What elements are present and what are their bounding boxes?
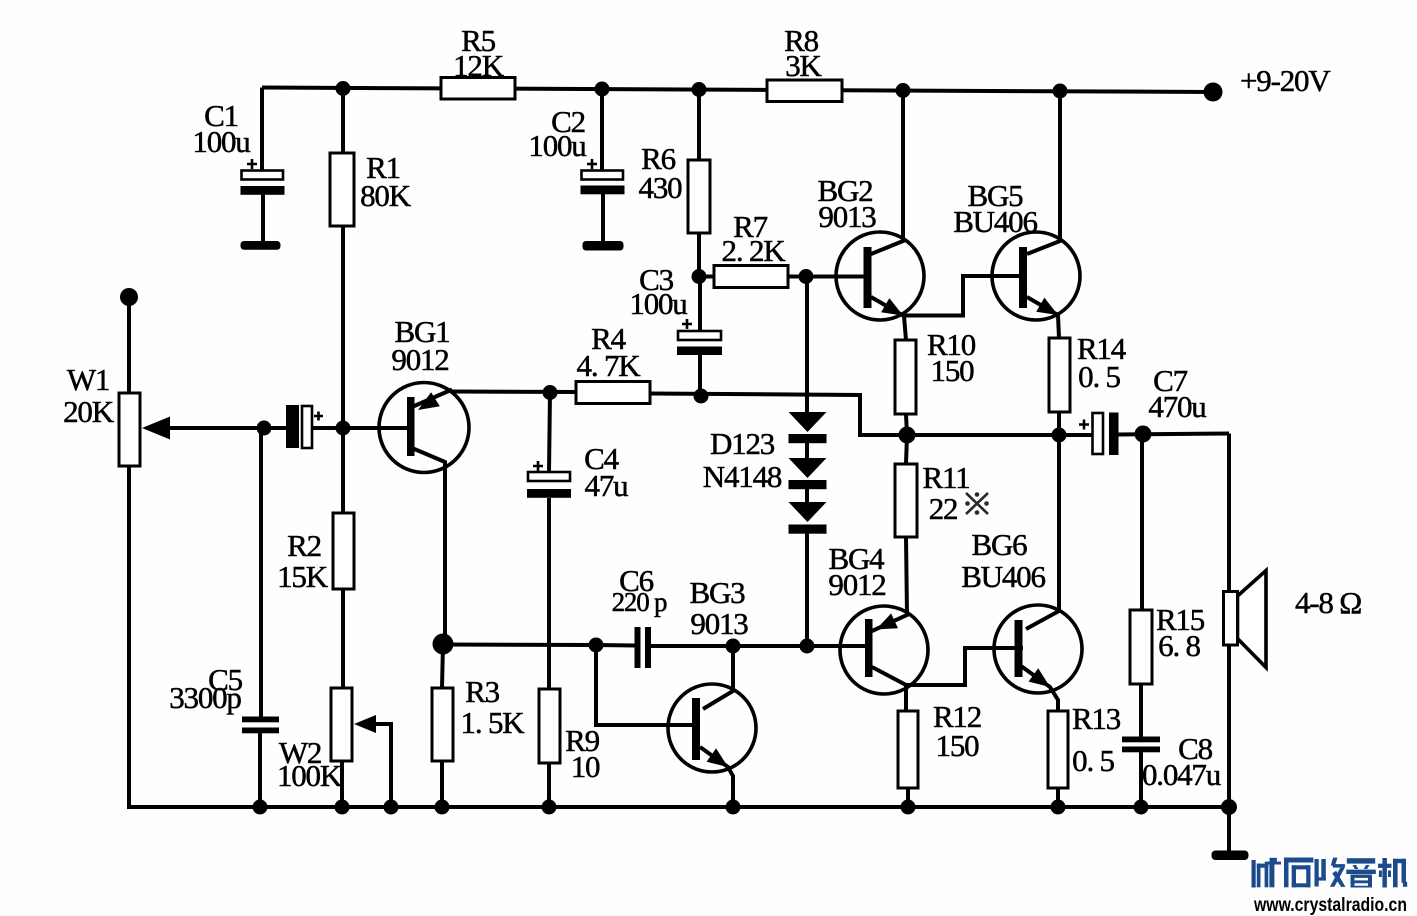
wire R4 node to C4 — [549, 393, 550, 473]
glyph ji — [1378, 858, 1407, 888]
capacitor C6 220p — [635, 627, 652, 668]
svg-text:www.crystalradio.cn: www.crystalradio.cn — [1253, 895, 1407, 916]
junction R6/C3/R7 node — [692, 269, 707, 284]
svg-text:9012: 9012 — [391, 342, 448, 377]
resistor R14 0.5 — [1049, 338, 1070, 412]
junction BG3 emitter/bottom rail — [726, 800, 741, 815]
wire BG3 base elbow — [596, 645, 696, 725]
junction W2 wiper/bottom rail — [384, 800, 399, 815]
resistor R5 12K — [441, 78, 515, 100]
node W1 input terminal — [120, 288, 138, 306]
wire R12 to bottom rail — [906, 788, 910, 807]
wire R13 to bottom rail — [1056, 788, 1060, 807]
wire R1 node to R2 — [341, 428, 345, 513]
resistor R7 2.2K — [714, 266, 788, 288]
junction R10/R11/output node — [899, 427, 916, 444]
svg-text:BU406: BU406 — [953, 204, 1037, 239]
wire C6 to BG3 collector node — [651, 644, 733, 648]
junction C2/top rail — [595, 82, 610, 97]
svg-text:9012: 9012 — [828, 567, 885, 602]
svg-text:150: 150 — [936, 728, 980, 763]
transistor BG4 9012 PNP — [840, 606, 928, 694]
wire R2 to W2 — [341, 589, 345, 688]
wire BG1 emitter diagonal — [412, 390, 452, 408]
junction W2/bottom rail — [335, 800, 350, 815]
capacitor C4 47u electrolytic — [527, 461, 571, 498]
diode D3 1N4148 — [789, 502, 827, 534]
potentiometer W2 100K body — [331, 688, 352, 761]
resistor R2 15K — [333, 513, 354, 589]
wire lower signal line to C6 — [443, 645, 635, 646]
svg-text:100u: 100u — [629, 286, 687, 321]
wire R1 to BG1 base node — [341, 226, 345, 428]
wire input node to C5 — [259, 428, 263, 717]
wire R11 to BG4 emitter — [872, 537, 907, 631]
wire BG1 emitter to R4 node — [450, 390, 576, 395]
wire BG6 collector to output node — [1026, 435, 1059, 629]
junction diode bottom/BG4 base node — [800, 639, 815, 654]
junction C5/bottom rail — [253, 800, 268, 815]
svg-text:0. 5: 0. 5 — [1078, 359, 1120, 394]
wire BG3 collector lead — [703, 646, 733, 709]
transistor BG3 9013 NPN — [668, 684, 756, 772]
wire input node to coupling cap — [264, 426, 286, 430]
wire speaker to bottom rail — [1227, 644, 1231, 807]
wire BG5 emitter to R14 — [1027, 297, 1059, 338]
wire C2 top lead — [600, 89, 604, 171]
junction BG2 collector/top rail — [896, 83, 911, 98]
speaker 4-8 ohm — [1224, 571, 1267, 668]
svg-text:0. 5: 0. 5 — [1072, 743, 1114, 778]
svg-text:N4148: N4148 — [703, 459, 782, 494]
wire R15 to C8 — [1139, 684, 1143, 737]
svg-text:3K: 3K — [785, 48, 822, 83]
svg-text:150: 150 — [931, 353, 975, 388]
wire BG2 emitter to R10 — [904, 316, 906, 340]
junction wiper/C5 node — [257, 421, 272, 436]
junction C6/BG3 base node — [589, 638, 604, 653]
wire W1 bottom to rail corner — [127, 466, 131, 809]
junction C3 bottom/R4 wire — [694, 389, 709, 404]
svg-text:9013: 9013 — [690, 606, 748, 641]
svg-text:4. 7K: 4. 7K — [577, 348, 642, 383]
wire BG5 collector from rail — [1027, 91, 1060, 254]
wire BG3 emitter to bottom rail — [700, 747, 733, 807]
capacitor C2 100u electrolytic — [581, 159, 625, 251]
junction R3/bottom rail — [435, 800, 450, 815]
svg-text:BG3: BG3 — [690, 575, 746, 610]
wire output node to R11 — [906, 435, 907, 464]
svg-text:BU406: BU406 — [961, 559, 1045, 594]
svg-text:9013: 9013 — [818, 199, 876, 234]
wire C5 to bottom rail — [258, 733, 262, 807]
diode D2 1N4148 — [789, 458, 827, 489]
wire BG3 collector node to diode node to BG4 base — [733, 644, 869, 648]
svg-text:3300p: 3300p — [169, 680, 241, 715]
transistor BG2 9013 NPN — [836, 232, 924, 320]
wire C3 node to C3 top plate — [698, 277, 702, 331]
svg-text:R3: R3 — [465, 674, 499, 709]
wire BG4 collector to BG6 base jog — [906, 648, 1023, 685]
resistor R4 4.7K — [576, 382, 650, 404]
resistor R15 6.8 — [1130, 610, 1152, 684]
wire R9 to bottom rail — [547, 763, 551, 807]
wire coupling cap to BG1 base — [312, 426, 411, 430]
wire top supply rail — [262, 88, 1212, 93]
svg-text:R11: R11 — [923, 460, 970, 495]
resistor R3 1.5K — [432, 688, 453, 761]
wire C1 top lead — [260, 88, 264, 173]
wire BG2 collector from rail — [871, 91, 903, 255]
wire speaker branch down to speaker — [1227, 434, 1231, 593]
wire W1 wiper to input node — [160, 426, 264, 430]
wire R4 right to jog down to output node — [650, 394, 907, 436]
wire BG6 emitter to R13 — [1021, 666, 1058, 711]
glyph shi — [1284, 858, 1313, 888]
transistor BG1 9012 PNP — [379, 383, 469, 473]
svg-text:12K: 12K — [453, 48, 505, 83]
svg-text:22: 22 — [929, 491, 958, 526]
watermark logo "kuang shi shou yin ji" (CJK drawn as shapes) — [1252, 858, 1408, 888]
resistor R1 80K — [330, 153, 354, 226]
potentiometer W2 wiper arrow — [354, 715, 376, 733]
resistor R13 0.5 — [1048, 711, 1068, 788]
wire R10 to output node — [906, 414, 907, 435]
junction R6/top rail — [692, 82, 707, 97]
glyph yin — [1346, 858, 1376, 887]
svg-text:10: 10 — [571, 749, 600, 784]
resistor R12 150 — [898, 711, 918, 788]
resistor R10 150 — [895, 340, 916, 414]
wire W1 top terminal lead — [127, 298, 131, 393]
diode D1 1N4148 — [789, 412, 827, 443]
svg-text:100u: 100u — [192, 124, 250, 159]
wire C7 to speaker branch — [1118, 434, 1229, 435]
junction C8/bottom rail — [1134, 800, 1149, 815]
resistor R6 430 — [688, 160, 710, 233]
resistor R8 3K — [767, 80, 842, 102]
wire C7 node to R15 — [1140, 434, 1144, 610]
wire R6 to C3 node — [697, 233, 701, 277]
junction C7/R15/speaker node — [1135, 426, 1152, 443]
wire ground lead — [1227, 807, 1231, 853]
junction R13/bottom rail — [1051, 800, 1066, 815]
node +9-20V supply terminal — [1204, 83, 1223, 102]
wire BG2 emitter to BG5 base jog — [871, 276, 1023, 316]
wire lower node to R3 — [442, 644, 443, 688]
wire R3 to bottom rail — [440, 761, 444, 807]
junction R9/bottom rail — [542, 800, 557, 815]
ground symbol — [1212, 851, 1249, 861]
svg-text:1. 5K: 1. 5K — [461, 705, 526, 740]
capacitor C7 470u electrolytic horizontal — [1079, 413, 1119, 456]
wire between D1 and D2 — [805, 441, 809, 459]
wire C4 to R9 — [547, 498, 551, 689]
junction R1/top rail — [336, 81, 351, 96]
junction R12/bottom rail — [901, 800, 916, 815]
junction BG3 collector node — [726, 639, 741, 654]
wire BG1 collector to lower node — [412, 448, 445, 644]
svg-text:W1: W1 — [67, 362, 109, 397]
wire diode chain top lead — [805, 277, 809, 414]
wire R7 to BG2 base — [788, 275, 868, 279]
svg-text:R2: R2 — [287, 528, 321, 563]
capacitor C8 0.047u — [1122, 737, 1160, 753]
svg-text:BG6: BG6 — [972, 527, 1028, 562]
potentiometer W1 wiper arrow — [142, 417, 170, 440]
capacitor C3 100u electrolytic — [677, 319, 722, 355]
wire R6 top lead — [697, 90, 701, 161]
svg-text:2. 2K: 2. 2K — [722, 233, 787, 268]
wire R14 to output node — [1057, 412, 1061, 435]
capacitor C1 100u electrolytic — [241, 159, 285, 250]
resistor R9 10 — [539, 689, 560, 763]
wire C2 bottom lead — [601, 194, 605, 244]
wire diode chain bottom lead — [805, 532, 809, 646]
junction BG1 emitter/R4/C4 node — [543, 385, 558, 400]
wire C3 node to R7 — [700, 275, 714, 279]
wire BG4 collector to R12 — [872, 667, 906, 711]
potentiometer W1 20K body — [119, 393, 140, 466]
RESISTORS — [119, 78, 1152, 789]
svg-text:100K: 100K — [277, 758, 343, 793]
junction R1/BG1 base node — [336, 421, 351, 436]
svg-text:D123: D123 — [710, 426, 775, 461]
junction speaker/ground/bottom rail — [1221, 799, 1237, 815]
capacitor C5 3300p — [242, 717, 279, 734]
wire C3 bottom lead — [698, 355, 702, 396]
wire output node to C7 — [907, 433, 1093, 437]
junction BG5 collector/top rail — [1053, 84, 1068, 99]
svg-text:430: 430 — [639, 170, 683, 205]
wire W2 to bottom rail — [340, 761, 344, 807]
svg-text:80K: 80K — [360, 178, 412, 213]
svg-text:6. 8: 6. 8 — [1158, 628, 1200, 663]
glyph kuang — [1252, 858, 1282, 888]
wire R1 branch top — [341, 89, 345, 154]
wire C1 bottom lead — [261, 194, 265, 244]
svg-text:220 p: 220 p — [612, 587, 667, 617]
svg-text:4-8 Ω: 4-8 Ω — [1295, 585, 1361, 620]
junction R7/BG2 base/diode top — [799, 269, 814, 284]
svg-text:100u: 100u — [528, 128, 586, 163]
wire bottom ground rail — [129, 805, 1229, 809]
svg-text:+9-20V: +9-20V — [1240, 63, 1331, 98]
wire between D2 and D3 — [805, 488, 809, 503]
capacitor input coupling electrolytic — [286, 405, 323, 448]
junction BG1 collector/R3 node — [433, 634, 454, 655]
transistor BG5 BU406 NPN — [992, 232, 1080, 320]
svg-text:0.047u: 0.047u — [1142, 757, 1221, 792]
svg-text:20K: 20K — [63, 394, 115, 429]
transistor BG6 BU406 NPN — [994, 605, 1082, 693]
svg-text:470u: 470u — [1148, 389, 1206, 424]
svg-text:R13: R13 — [1072, 701, 1121, 736]
wire C8 to bottom rail — [1139, 751, 1143, 807]
note mark after R11 22 — [965, 492, 989, 515]
wire W2 wiper elbow to bottom rail — [371, 724, 391, 807]
glyph shou — [1315, 858, 1346, 887]
resistor R11 22 — [895, 464, 917, 537]
svg-text:47u: 47u — [585, 468, 629, 503]
junction R14/BG6 collector/output node — [1052, 428, 1067, 443]
svg-text:15K: 15K — [277, 559, 329, 594]
